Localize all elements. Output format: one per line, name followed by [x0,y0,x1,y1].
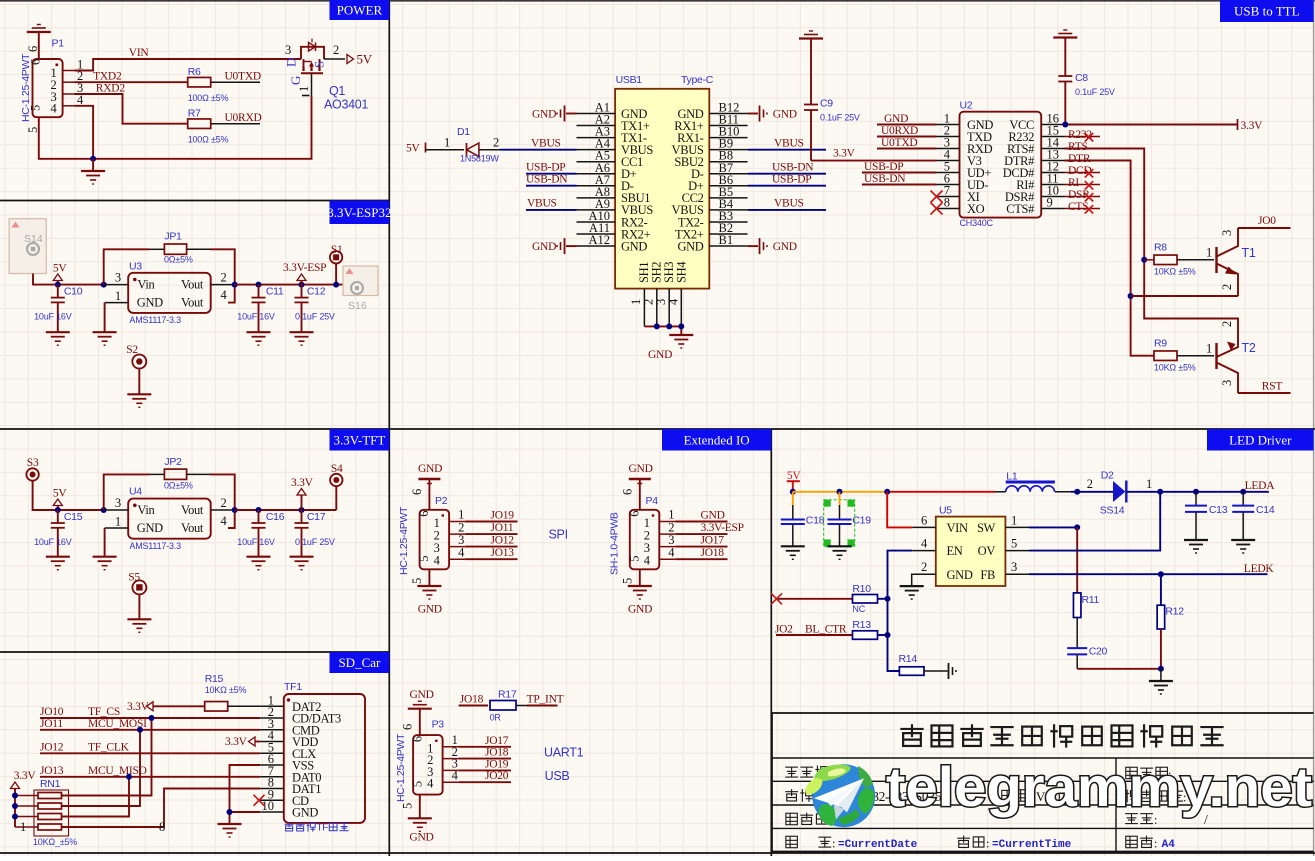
connector TF1 [284,694,365,823]
wire P2 pin2 JO11 [465,533,517,535]
wire RI [1065,184,1101,186]
svg-text:1: 1 [444,136,450,150]
svg-text:2: 2 [1220,284,1234,290]
svg-text:TF_CLK: TF_CLK [88,742,130,754]
junction sh2 [654,323,660,329]
svg-text:LED Driver: LED Driver [1229,432,1292,447]
wire gate rail [39,96,312,159]
svg-text:JP1: JP1 [164,231,182,243]
wire VIN red [887,492,912,528]
ground C12 [290,331,314,333]
svg-text:10uF 16V: 10uF 16V [237,312,275,322]
connector USB1 body [615,89,709,289]
svg-text:C14: C14 [1256,504,1275,516]
svg-text:D: D [284,58,299,67]
svg-text:0.1uF 25V: 0.1uF 25V [295,537,335,547]
resistor JP1 [164,244,186,254]
svg-text:P2: P2 [435,495,448,507]
junction RTS/R8 [1141,257,1147,263]
wire USB-DN pin6 [862,184,937,186]
connector P1 [33,59,63,117]
svg-text:XO: XO [967,202,985,216]
wire TF_CLK [40,752,260,754]
svg-text:3.3V-ESP32: 3.3V-ESP32 [327,205,391,220]
part S16 (disabled) [343,266,378,296]
ground U5 [900,585,924,587]
svg-text:9: 9 [1047,196,1053,210]
USB1 shield pins [643,289,645,327]
svg-text:4: 4 [458,545,465,559]
svg-text:GND: GND [418,463,442,475]
svg-text:5: 5 [627,556,641,562]
wire LEDA rail [1160,491,1269,493]
svg-text:HC-1.25-4PWT: HC-1.25-4PWT [20,53,32,122]
wire T1 emitter net [1131,295,1238,297]
svg-text:3: 3 [1220,380,1234,386]
junction JP1 left [101,282,107,288]
svg-text:6: 6 [621,489,635,495]
ground P2 [417,585,441,587]
svg-text:5V: 5V [357,52,373,67]
wire RN1 r3 to MISO [62,777,130,817]
svg-text:AMS1117-3.3: AMS1117-3.3 [129,315,181,325]
junction C12 [299,282,305,288]
wire P3 pin3 JO19 [459,769,511,771]
U2 right stubs [1041,124,1064,126]
wire S5 to ground [138,594,140,619]
capacitor C10 [57,285,59,298]
svg-text:BL_CTR: BL_CTR [805,624,847,636]
svg-text:4: 4 [668,545,675,559]
svg-text:1: 1 [1146,477,1152,491]
ground C8 top [1063,29,1067,31]
field version [1002,790,1013,800]
svg-text:JO18: JO18 [460,693,484,705]
wire P1 pin2 to R6 [75,81,188,83]
svg-text:1: 1 [1206,246,1212,260]
svg-text:USB-DN: USB-DN [864,173,906,185]
field product number [786,813,797,824]
wire R9 left [1131,355,1154,357]
svg-text:R10: R10 [852,583,871,595]
svg-text:8: 8 [944,196,950,210]
svg-text:EN: EN [947,544,963,558]
svg-text:R9: R9 [1154,338,1167,350]
svg-text:VBUS: VBUS [774,198,804,210]
svg-text:Vout: Vout [181,521,204,535]
svg-text::: : [986,837,989,851]
svg-text:3.3V-ESP: 3.3V-ESP [701,522,744,534]
svg-text:5V: 5V [406,143,421,155]
svg-text:GND: GND [532,109,556,121]
svg-text:3.3V-ESP: 3.3V-ESP [283,262,326,274]
wire RTS net [1065,149,1239,334]
wire RN1 left stubs [15,795,38,797]
connector S3 [26,468,38,480]
ground C9 top [809,30,813,32]
svg-text:C11: C11 [266,286,284,298]
capacitor C14 [1242,492,1244,506]
svg-text:6: 6 [401,724,415,730]
wire P2 bottom gnd [428,569,430,586]
svg-text:VIN: VIN [129,47,150,59]
wire R14 right [924,670,948,672]
wire S2 to ground [138,369,140,395]
svg-text:4: 4 [427,777,434,791]
svg-text:TF1: TF1 [284,681,302,693]
wire VBUS B9 [748,149,826,151]
svg-text:JO12: JO12 [491,535,515,547]
wire RN1 r2 to MOSI [62,730,141,806]
svg-text:JO12: JO12 [40,742,64,754]
resistor R8 [1154,255,1177,264]
transistor T1 [1215,247,1217,273]
capacitor C19 [839,492,841,505]
wire USB-DN A7 [526,185,577,187]
svg-text:1: 1 [1206,342,1212,356]
svg-text::: : [1154,837,1157,851]
svg-text:4: 4 [434,554,441,568]
svg-text:CH340C: CH340C [960,218,994,228]
wire VBUS B4 [748,209,826,211]
junction DTR/T1e [1128,293,1134,299]
wire 5V rail red [887,491,995,493]
wire FB net [1029,573,1268,575]
svg-text:RI: RI [1068,177,1079,189]
svg-text:JO18: JO18 [485,747,509,759]
svg-text:5: 5 [410,578,424,584]
ground C15 [46,556,70,558]
wire VIN net [75,59,302,71]
wire U3 Vout pin2 [211,284,235,286]
ground U4 [93,556,117,558]
svg-text:GND: GND [701,510,725,522]
junction C13 top [1193,489,1199,495]
svg-text:S2: S2 [126,344,138,356]
wire VSS/GND to ground [230,765,261,824]
svg-text:4: 4 [221,288,228,302]
svg-text:GND: GND [628,604,652,616]
svg-text:4: 4 [644,554,651,568]
no-connect X R232 [1085,133,1093,141]
svg-text:6: 6 [417,511,431,517]
connector P3 [413,735,443,795]
wire P1 pin4 down [75,106,94,159]
svg-text:A4: A4 [1162,839,1176,851]
svg-text:3.3V: 3.3V [127,701,150,713]
svg-text:2: 2 [333,43,339,57]
USB1 right pin stubs [709,113,747,115]
svg-text:POWER: POWER [337,3,383,18]
wire JO18 to R17 [459,705,488,707]
capacitor C12 [301,285,303,298]
svg-text:3: 3 [1011,560,1017,574]
resistor R12 [1160,574,1162,605]
svg-text:U5: U5 [939,505,952,517]
power port 3.3V (VCC) [1237,119,1239,130]
svg-text:JP2: JP2 [164,456,182,468]
resistor R7 [188,119,211,129]
wire U5 GND [911,574,914,586]
svg-text:USB-DN: USB-DN [772,162,814,174]
svg-text:C17: C17 [307,511,326,523]
wire MCU_MOSI [40,729,260,731]
resistor R6 [188,77,211,87]
svg-text:D1: D1 [457,126,470,138]
field product name [785,766,798,768]
svg-text:U3: U3 [129,261,142,273]
junction LEDA/OV [1157,489,1163,495]
svg-text:=CurrentTime: =CurrentTime [992,839,1072,851]
svg-text:JO18: JO18 [701,547,725,559]
wire RST [1238,392,1291,394]
regulator U4 [128,499,211,539]
wire 3.3V to V3 [811,160,937,162]
svg-text:GND: GND [884,113,908,125]
section divider horizontal bottom [0,852,1315,854]
svg-text:5: 5 [401,803,415,809]
wire R14 left [888,635,900,671]
resistor JP2 [164,469,186,479]
banner SD_Car [330,652,390,673]
svg-text:LEDA: LEDA [1245,480,1276,492]
junction 5V/C10 [55,282,61,288]
svg-text:6: 6 [26,46,40,52]
svg-text:2: 2 [921,560,927,574]
svg-text:2: 2 [1087,477,1093,491]
ground USB1 shield [669,334,693,336]
wire USB-DP A6 [526,173,577,175]
pin1 U3 GND wire [105,302,129,304]
power port 5V (POWER) [347,55,354,64]
svg-text:SS14: SS14 [1100,505,1125,517]
svg-text:0Ω±5%: 0Ω±5% [164,480,193,490]
connector S5 [132,580,146,594]
svg-text:Vin: Vin [137,503,155,517]
section divider horizontal mid [0,428,1315,430]
svg-text:P3: P3 [432,718,445,730]
connector S4 [330,474,342,486]
watermark telegram globe [812,764,875,827]
title block frame [772,712,1314,714]
svg-text:5: 5 [417,556,431,562]
svg-text:C13: C13 [1209,504,1228,516]
wire U4 Vout pin2 [211,509,235,511]
wire OV up [1029,492,1160,551]
svg-text:R11: R11 [1082,594,1100,606]
junction sh3 [666,323,672,329]
ground C18 [781,545,805,547]
wire P2 pin4 JO13 [465,558,517,560]
svg-text:S14: S14 [24,233,43,245]
svg-text:4: 4 [221,514,228,528]
section divider vertical left [388,0,390,856]
svg-text:0.1uF 25V: 0.1uF 25V [820,113,860,123]
svg-text:10uF 16V: 10uF 16V [237,537,275,547]
ground P1 top (bar style) [37,24,41,26]
svg-text:R17: R17 [498,689,517,701]
svg-text:4: 4 [667,298,681,305]
wire node to R11 [1076,527,1078,593]
wire P2 pin1 JO19 [465,521,517,523]
svg-text:2: 2 [493,136,499,150]
wire CTS [1065,208,1101,210]
svg-text:U4: U4 [129,485,142,497]
svg-text:R8: R8 [1154,242,1167,254]
wire P4 pin1 GND [675,521,727,523]
svg-text:R14: R14 [899,653,918,665]
resistor R15 [205,702,228,712]
svg-text:R232: R232 [1068,129,1092,141]
svg-text:10KΩ ±5%: 10KΩ ±5% [1154,267,1196,277]
ground U3 [93,331,117,333]
svg-text:T2: T2 [1242,341,1256,355]
wire BL_CTR [776,634,853,636]
svg-text:RXD2: RXD2 [96,83,126,95]
svg-text:S: S [312,61,327,68]
svg-text:S1: S1 [331,244,343,256]
svg-text:USB-DP: USB-DP [526,162,565,174]
svg-text:JO13: JO13 [40,765,64,777]
ground P3 [408,817,432,819]
wire DSR [1065,196,1101,198]
ground C19 [828,545,852,547]
wire R13 right [878,634,888,636]
ground S2 [127,393,151,395]
svg-text:JO10: JO10 [40,706,64,718]
svg-text:3.3V: 3.3V [14,770,37,782]
svg-text:RST: RST [1262,381,1283,393]
svg-text:VBUS: VBUS [531,138,561,150]
resistor R10 [853,595,878,604]
svg-text:5: 5 [1011,537,1017,551]
connector S1 [330,251,342,263]
wire L1 to D2 [1071,491,1113,493]
banner Extended IO [662,429,771,451]
junction FB/R12 [1158,571,1164,577]
wire shield common [644,325,681,327]
svg-text:Vout: Vout [181,296,204,310]
wire R17 to TP_INT [516,705,527,707]
svg-text:VBUS: VBUS [774,138,804,150]
svg-text:4: 4 [51,101,58,115]
svg-text:C15: C15 [64,511,83,523]
svg-text:C19: C19 [852,515,871,527]
svg-text:C20: C20 [1089,646,1108,658]
svg-text:6: 6 [921,514,927,528]
svg-text:JO19: JO19 [491,510,515,522]
wire U3 Vin stub [104,284,129,286]
svg-text:4: 4 [921,537,928,551]
junction C14 top [1240,489,1246,495]
wire P2 pin3 JO12 [465,546,517,548]
wire P4 pin4 JO18 [675,558,727,560]
field paper [1126,836,1137,847]
junction Vout U4 [232,507,238,513]
svg-text:1: 1 [115,515,121,529]
wire S4 stem [335,486,337,510]
section divider horizontal TFT/SD [0,651,389,653]
svg-text:1: 1 [115,289,121,303]
svg-text:SPI: SPI [549,528,568,542]
svg-text:GND: GND [773,109,797,121]
wire R15 right [228,705,261,707]
wire R6 to U0TXD [211,81,260,83]
svg-text:S16: S16 [348,300,367,312]
svg-text:S4: S4 [331,463,343,475]
svg-text:telegrammy.net: telegrammy.net [886,755,1312,818]
wire USB-DN B7 [748,173,826,175]
svg-text:B1: B1 [719,233,734,247]
svg-text:3.3V: 3.3V [1241,120,1264,132]
svg-text:C10: C10 [64,286,83,298]
wire P4 bottom gnd [639,569,641,586]
wire VBUS A9 [526,209,577,211]
svg-text:GND: GND [137,521,163,535]
capacitor C20 [1076,645,1078,648]
svg-text:GND: GND [621,239,647,253]
no-connect X pin8 XO [931,203,943,215]
junction EN/R13 [885,632,891,638]
svg-text:USB-DN: USB-DN [526,174,568,186]
svg-text:MCU_MISO: MCU_MISO [88,765,147,777]
svg-text:R7: R7 [188,108,201,120]
wire R10 right [878,598,888,600]
svg-text:CTS#: CTS# [1006,202,1035,216]
svg-text:U0TXD: U0TXD [881,137,917,149]
ground C11 [247,331,271,333]
wire EN net [888,551,913,635]
junction C19 top [837,489,843,495]
svg-text:GND: GND [410,689,434,701]
wire JP1 right [187,248,210,250]
ground C13 [1184,539,1208,541]
transistor Q1 mosfet [301,72,323,74]
no-connect X TF1 pin9 [254,795,265,806]
field page [1125,813,1138,815]
ground S5 [127,618,151,620]
junction RN1 a [12,793,18,799]
svg-text:5V: 5V [53,488,68,500]
wire Q1 source to 5V [324,58,345,60]
svg-text:1N5819W: 1N5819W [460,154,499,164]
wire USB-DP pin5 [862,172,937,174]
svg-text:HC-1.25-4PWT: HC-1.25-4PWT [395,733,407,802]
svg-text:DTR: DTR [1068,153,1091,165]
svg-text:C9: C9 [820,98,833,110]
svg-text:D2: D2 [1101,470,1114,482]
junction VCC/C8 [1062,122,1068,128]
field time [957,837,970,839]
svg-text:TP_INT: TP_INT [527,694,564,706]
resistor R13 [853,631,878,640]
svg-text:R15: R15 [205,673,224,685]
wire TF_CS [40,717,260,719]
wire U0RXD pin2 [877,136,937,138]
banner USB to TTL [1220,0,1314,22]
wire R232 [1065,136,1101,138]
no-connect X RI [1085,181,1093,189]
transistor T2 [1215,343,1217,369]
svg-text:U0RXD: U0RXD [881,125,918,137]
section divider vertical right [770,429,772,856]
wire R9 to T2 base [1177,355,1214,357]
wire U4 Vin stub [104,509,129,511]
page right border [1313,0,1315,856]
wire P3 pin2 JO18 [459,758,511,760]
capacitor C11 [258,285,260,298]
svg-text:CTS: CTS [1068,201,1088,213]
